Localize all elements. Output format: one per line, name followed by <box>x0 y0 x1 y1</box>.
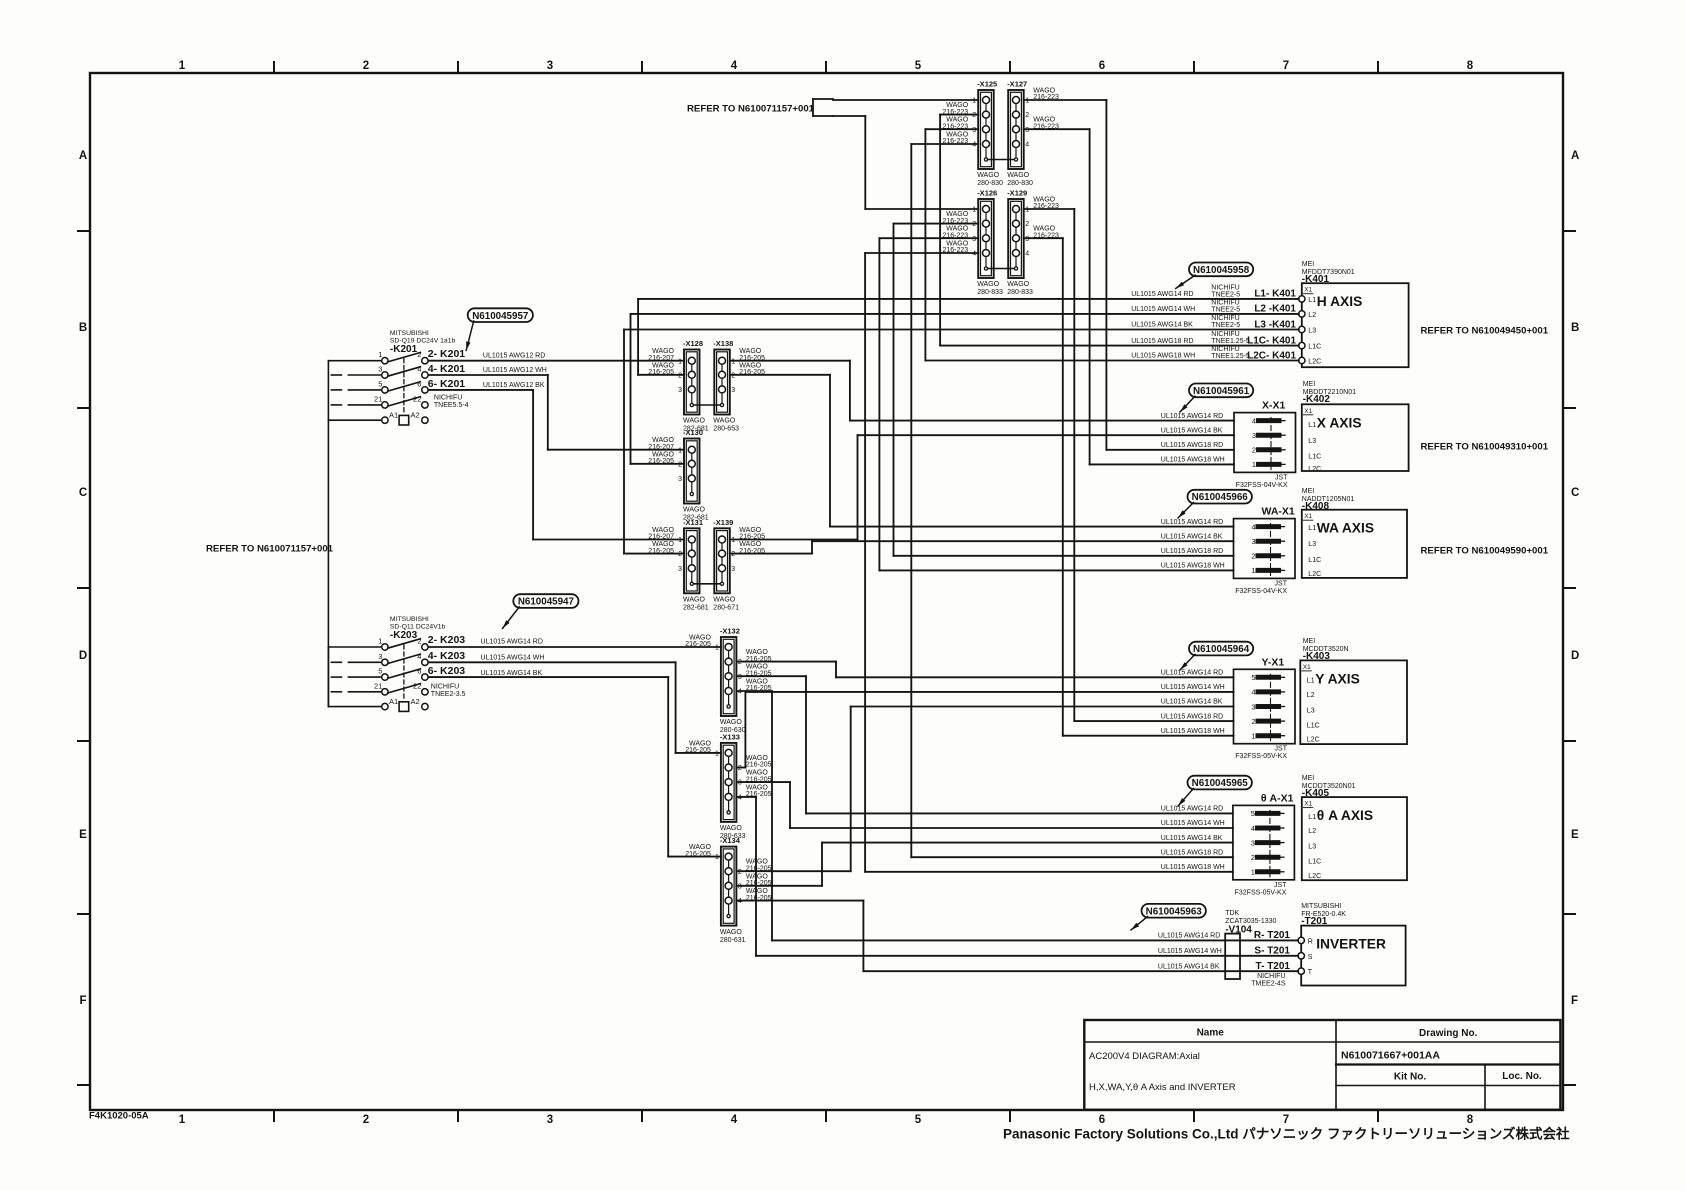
svg-text:3: 3 <box>678 566 682 573</box>
svg-text:1: 1 <box>1251 732 1255 741</box>
svg-text:UL1015 AWG14 BK: UL1015 AWG14 BK <box>1161 427 1223 434</box>
svg-text:1: 1 <box>972 207 976 214</box>
svg-text:UL1015 AWG14 RD: UL1015 AWG14 RD <box>481 638 543 645</box>
svg-text:TNEE2-3.5: TNEE2-3.5 <box>431 691 466 698</box>
svg-text:MITSUBISHI: MITSUBISHI <box>1301 903 1341 910</box>
svg-text:L2C: L2C <box>1308 571 1321 578</box>
svg-text:UL1015 AWG14 BK: UL1015 AWG14 BK <box>1161 835 1223 842</box>
svg-text:Panasonic Factory Solutions Co: Panasonic Factory Solutions Co.,Ltd パナソニ… <box>1003 1126 1570 1142</box>
svg-text:WAGO: WAGO <box>683 418 705 425</box>
svg-text:21: 21 <box>374 681 382 690</box>
svg-text:X AXIS: X AXIS <box>1317 415 1362 430</box>
svg-text:N610045947: N610045947 <box>518 597 575 608</box>
svg-text:216-205: 216-205 <box>685 747 711 754</box>
svg-text:1: 1 <box>731 358 735 365</box>
svg-text:3: 3 <box>1025 236 1029 243</box>
svg-text:-K201: -K201 <box>390 344 418 355</box>
svg-text:MEI: MEI <box>1303 381 1316 388</box>
svg-text:4: 4 <box>417 365 421 374</box>
svg-text:2: 2 <box>738 765 742 772</box>
svg-text:X1: X1 <box>1303 664 1311 671</box>
svg-text:B: B <box>79 322 87 334</box>
svg-text:4: 4 <box>738 795 742 802</box>
svg-text:REFER TO N610049590+001: REFER TO N610049590+001 <box>1421 546 1549 557</box>
svg-text:X1: X1 <box>1304 287 1312 294</box>
svg-text:TNEE2-5: TNEE2-5 <box>1211 322 1240 329</box>
svg-text:Loc. No.: Loc. No. <box>1502 1071 1542 1082</box>
svg-text:-X125: -X125 <box>977 80 997 89</box>
svg-text:L1: L1 <box>1307 678 1315 685</box>
svg-text:MEI: MEI <box>1303 638 1316 645</box>
svg-text:A1: A1 <box>389 697 398 706</box>
svg-text:UL1015 AWG12 WH: UL1015 AWG12 WH <box>483 367 547 374</box>
svg-text:216-205: 216-205 <box>685 641 711 648</box>
svg-text:UL1015 AWG14 WH: UL1015 AWG14 WH <box>1161 684 1225 691</box>
svg-text:UL1015 AWG14 BK: UL1015 AWG14 BK <box>1161 699 1223 706</box>
svg-text:R: R <box>1308 938 1313 945</box>
svg-text:4: 4 <box>1251 824 1255 833</box>
svg-text:4: 4 <box>1252 416 1256 425</box>
svg-text:4: 4 <box>1025 251 1029 258</box>
svg-text:UL1015 AWG14 WH: UL1015 AWG14 WH <box>1131 306 1195 313</box>
svg-text:WA AXIS: WA AXIS <box>1317 521 1374 536</box>
svg-text:4: 4 <box>738 689 742 696</box>
svg-text:MEI: MEI <box>1302 488 1315 495</box>
svg-text:Kit No.: Kit No. <box>1394 1072 1426 1083</box>
svg-text:X1: X1 <box>1304 801 1312 808</box>
svg-text:2: 2 <box>1025 221 1029 228</box>
svg-text:282-681: 282-681 <box>683 605 709 612</box>
svg-text:UL1015 AWG18 WH: UL1015 AWG18 WH <box>1131 353 1195 360</box>
svg-text:REFER TO N610049450+001: REFER TO N610049450+001 <box>1421 326 1549 337</box>
svg-text:2: 2 <box>731 372 735 379</box>
svg-text:T: T <box>1308 969 1313 976</box>
svg-text:UL1015 AWG12 BK: UL1015 AWG12 BK <box>483 382 545 389</box>
svg-text:UL1015 AWG14 RD: UL1015 AWG14 RD <box>1161 413 1223 420</box>
svg-text:X1: X1 <box>1304 408 1312 415</box>
svg-text:2: 2 <box>417 350 421 359</box>
svg-text:3: 3 <box>738 674 742 681</box>
svg-text:MEI: MEI <box>1302 775 1315 782</box>
svg-text:R- T201: R- T201 <box>1254 930 1291 941</box>
svg-text:N610045966: N610045966 <box>1192 492 1249 503</box>
svg-text:6: 6 <box>417 379 421 388</box>
svg-text:A1: A1 <box>389 411 398 420</box>
svg-text:F32FSS-05V-KX: F32FSS-05V-KX <box>1235 889 1287 896</box>
svg-text:WAGO: WAGO <box>977 281 999 288</box>
svg-text:NICHIFU: NICHIFU <box>431 684 459 691</box>
svg-text:INVERTER: INVERTER <box>1316 937 1386 952</box>
svg-text:280-631: 280-631 <box>720 937 746 944</box>
svg-text:UL1015 AWG14 RD: UL1015 AWG14 RD <box>1161 670 1223 677</box>
svg-text:N610045963: N610045963 <box>1146 906 1203 917</box>
svg-text:X-X1: X-X1 <box>1262 400 1286 412</box>
svg-text:4- K201: 4- K201 <box>428 363 466 375</box>
svg-text:N610071667+001AA: N610071667+001AA <box>1341 1050 1440 1062</box>
svg-text:3: 3 <box>378 365 382 374</box>
svg-text:S- T201: S- T201 <box>1254 946 1290 957</box>
svg-text:2: 2 <box>678 372 682 379</box>
svg-text:NICHIFU: NICHIFU <box>1211 331 1239 338</box>
svg-text:6: 6 <box>1099 1114 1105 1126</box>
svg-text:6- K203: 6- K203 <box>428 665 466 677</box>
svg-text:-X132: -X132 <box>720 627 740 636</box>
svg-text:REFER TO N610071157+001: REFER TO N610071157+001 <box>687 104 815 115</box>
svg-text:2: 2 <box>363 60 369 72</box>
svg-text:8: 8 <box>1467 1114 1474 1126</box>
svg-text:UL1015 AWG18 WH: UL1015 AWG18 WH <box>1161 457 1225 464</box>
svg-text:Y AXIS: Y AXIS <box>1315 671 1359 686</box>
svg-text:A2: A2 <box>411 411 420 420</box>
svg-text:F32FSS-04V-KX: F32FSS-04V-KX <box>1235 588 1287 595</box>
svg-text:5: 5 <box>378 379 382 388</box>
svg-text:E: E <box>79 829 87 841</box>
svg-text:NICHIFU: NICHIFU <box>1211 284 1239 291</box>
svg-text:UL1015 AWG14 WH: UL1015 AWG14 WH <box>481 654 545 661</box>
svg-text:L3: L3 <box>1308 844 1316 851</box>
svg-text:5: 5 <box>1251 809 1255 818</box>
svg-text:F: F <box>1571 995 1578 1007</box>
svg-text:1: 1 <box>715 751 719 758</box>
svg-text:L2C: L2C <box>1308 359 1321 366</box>
svg-text:3: 3 <box>738 883 742 890</box>
svg-text:L1C: L1C <box>1308 859 1321 866</box>
svg-text:1: 1 <box>1252 460 1256 469</box>
svg-text:WAGO: WAGO <box>683 597 705 604</box>
svg-text:L2C- K401: L2C- K401 <box>1247 350 1296 361</box>
svg-text:-X139: -X139 <box>713 518 733 527</box>
svg-text:5: 5 <box>1251 673 1255 682</box>
svg-text:NICHIFU: NICHIFU <box>1211 299 1239 306</box>
svg-text:1: 1 <box>678 358 682 365</box>
svg-text:1: 1 <box>715 645 719 652</box>
svg-text:UL1015 AWG18 RD: UL1015 AWG18 RD <box>1161 849 1223 856</box>
svg-text:L2: L2 <box>1308 828 1316 835</box>
svg-text:3: 3 <box>1252 431 1256 440</box>
svg-text:1: 1 <box>1251 566 1255 575</box>
svg-text:θ A-X1: θ A-X1 <box>1261 792 1294 804</box>
svg-text:UL1015 AWG18 RD: UL1015 AWG18 RD <box>1161 548 1223 555</box>
svg-text:UL1015 AWG14 BK: UL1015 AWG14 BK <box>1131 322 1193 329</box>
svg-text:8: 8 <box>1467 60 1474 72</box>
svg-text:θ A AXIS: θ A AXIS <box>1317 808 1373 823</box>
svg-text:2: 2 <box>731 551 735 558</box>
svg-text:N610045958: N610045958 <box>1193 265 1250 276</box>
svg-text:2- K201: 2- K201 <box>428 348 466 360</box>
svg-text:-X130: -X130 <box>683 428 703 437</box>
svg-text:2: 2 <box>1025 112 1029 119</box>
svg-text:3: 3 <box>678 387 682 394</box>
svg-text:1: 1 <box>1251 868 1255 877</box>
svg-text:3: 3 <box>731 387 735 394</box>
svg-text:TDK: TDK <box>1225 910 1239 917</box>
svg-text:UL1015 AWG14 WH: UL1015 AWG14 WH <box>1158 948 1222 955</box>
svg-text:2: 2 <box>1251 717 1255 726</box>
svg-text:6: 6 <box>417 667 421 676</box>
svg-text:-X138: -X138 <box>713 339 733 348</box>
svg-text:L3 -K401: L3 -K401 <box>1254 319 1296 330</box>
svg-text:3: 3 <box>738 780 742 787</box>
svg-text:H AXIS: H AXIS <box>1317 294 1363 309</box>
svg-text:3: 3 <box>547 1114 553 1126</box>
svg-text:280-833: 280-833 <box>1007 289 1033 296</box>
svg-text:UL1015 AWG14 RD: UL1015 AWG14 RD <box>1161 806 1223 813</box>
svg-text:3: 3 <box>1251 702 1255 711</box>
svg-text:WAGO: WAGO <box>1007 281 1029 288</box>
svg-text:WAGO: WAGO <box>713 418 735 425</box>
svg-text:1: 1 <box>378 350 382 359</box>
svg-text:5: 5 <box>915 1114 922 1126</box>
svg-text:WAGO: WAGO <box>720 719 742 726</box>
svg-text:4: 4 <box>1251 522 1255 531</box>
svg-text:-X128: -X128 <box>683 339 703 348</box>
svg-text:X1: X1 <box>1304 513 1312 520</box>
svg-text:4- K203: 4- K203 <box>428 650 466 662</box>
svg-text:WAGO: WAGO <box>683 507 705 514</box>
svg-text:TNEE5.5-4: TNEE5.5-4 <box>434 402 469 409</box>
svg-text:NICHIFU: NICHIFU <box>1211 346 1239 353</box>
svg-text:3: 3 <box>972 127 976 134</box>
svg-text:UL1015 AWG18 WH: UL1015 AWG18 WH <box>1161 864 1225 871</box>
svg-text:N610045957: N610045957 <box>472 311 529 322</box>
svg-text:L2 -K401: L2 -K401 <box>1254 304 1296 315</box>
svg-text:UL1015 AWG14 RD: UL1015 AWG14 RD <box>1131 291 1193 298</box>
svg-text:N610045965: N610045965 <box>1192 778 1249 789</box>
svg-text:UL1015 AWG18 WH: UL1015 AWG18 WH <box>1161 563 1225 570</box>
svg-text:22: 22 <box>413 681 421 690</box>
svg-text:1: 1 <box>179 1114 186 1126</box>
svg-text:4: 4 <box>731 1114 738 1126</box>
svg-text:WAGO: WAGO <box>1007 172 1029 179</box>
svg-text:2: 2 <box>738 869 742 876</box>
svg-text:-X129: -X129 <box>1007 189 1027 198</box>
svg-text:3: 3 <box>678 476 682 483</box>
svg-text:NICHIFU: NICHIFU <box>434 395 462 402</box>
svg-text:D: D <box>1571 650 1579 662</box>
svg-text:2: 2 <box>1252 446 1256 455</box>
svg-text:C: C <box>79 487 87 499</box>
svg-text:L1: L1 <box>1308 422 1316 429</box>
svg-text:1: 1 <box>378 637 382 646</box>
svg-text:MITSUBISHI: MITSUBISHI <box>390 330 429 337</box>
svg-text:L1: L1 <box>1308 525 1316 532</box>
svg-text:2: 2 <box>363 1114 369 1126</box>
svg-text:4: 4 <box>731 60 738 72</box>
svg-text:WAGO: WAGO <box>977 172 999 179</box>
svg-text:3: 3 <box>378 652 382 661</box>
svg-text:TNEE1.25-5: TNEE1.25-5 <box>1211 353 1250 360</box>
svg-text:1: 1 <box>1025 207 1029 214</box>
svg-text:-X131: -X131 <box>683 518 703 527</box>
svg-text:F32FSS-05V-KX: F32FSS-05V-KX <box>1235 753 1287 760</box>
svg-text:L3: L3 <box>1308 328 1316 335</box>
svg-text:L2: L2 <box>1307 692 1315 699</box>
svg-text:-X134: -X134 <box>720 836 741 845</box>
svg-text:4: 4 <box>738 898 742 905</box>
svg-text:2: 2 <box>972 221 976 228</box>
svg-text:JST: JST <box>1275 474 1288 481</box>
svg-text:3: 3 <box>972 236 976 243</box>
svg-text:2: 2 <box>1251 853 1255 862</box>
svg-text:3: 3 <box>1025 127 1029 134</box>
svg-text:S: S <box>1308 954 1313 961</box>
svg-text:216-205: 216-205 <box>746 762 772 769</box>
svg-text:Name: Name <box>1197 1028 1225 1039</box>
svg-text:L1C- K401: L1C- K401 <box>1247 335 1296 346</box>
svg-text:L3: L3 <box>1307 708 1315 715</box>
svg-text:1: 1 <box>715 854 719 861</box>
svg-text:2: 2 <box>1251 552 1255 561</box>
svg-text:280-653: 280-653 <box>713 426 739 433</box>
svg-text:1: 1 <box>179 60 186 72</box>
svg-text:A2: A2 <box>411 697 420 706</box>
svg-text:2: 2 <box>678 461 682 468</box>
svg-text:UL1015 AWG14 WH: UL1015 AWG14 WH <box>1161 820 1225 827</box>
svg-text:UL1015 AWG14 RD: UL1015 AWG14 RD <box>1161 519 1223 526</box>
svg-text:MEI: MEI <box>1302 261 1315 268</box>
svg-text:2: 2 <box>972 112 976 119</box>
svg-text:T- T201: T- T201 <box>1256 961 1291 972</box>
svg-text:1: 1 <box>678 537 682 544</box>
svg-text:6: 6 <box>1099 60 1105 72</box>
svg-text:L1- K401: L1- K401 <box>1254 289 1296 300</box>
svg-text:AC200V4 DIAGRAM:Axial: AC200V4 DIAGRAM:Axial <box>1089 1051 1200 1062</box>
svg-text:C: C <box>1571 487 1579 499</box>
svg-text:L1C: L1C <box>1307 723 1320 730</box>
svg-text:L3: L3 <box>1308 541 1316 548</box>
svg-text:22: 22 <box>413 394 421 403</box>
svg-text:280-830: 280-830 <box>977 180 1003 187</box>
svg-text:UL1015 AWG18 WH: UL1015 AWG18 WH <box>1161 728 1225 735</box>
svg-text:TNEE2-5: TNEE2-5 <box>1211 291 1240 298</box>
svg-text:-X126: -X126 <box>977 189 997 198</box>
svg-text:4: 4 <box>972 251 976 258</box>
svg-text:3: 3 <box>1251 838 1255 847</box>
svg-text:REFER TO N610071157+001: REFER TO N610071157+001 <box>206 544 334 555</box>
svg-text:JST: JST <box>1275 746 1288 753</box>
svg-text:UL1015 AWG14 BK: UL1015 AWG14 BK <box>1158 963 1220 970</box>
svg-text:5: 5 <box>915 60 922 72</box>
svg-text:A: A <box>1571 150 1579 162</box>
svg-text:L1C: L1C <box>1308 557 1321 564</box>
svg-text:4: 4 <box>1025 142 1029 149</box>
svg-text:2: 2 <box>738 659 742 666</box>
svg-text:Y-X1: Y-X1 <box>1262 656 1285 668</box>
svg-text:L1C: L1C <box>1308 454 1321 461</box>
svg-text:TMEE2-4S: TMEE2-4S <box>1251 980 1286 987</box>
svg-text:D: D <box>79 650 87 662</box>
svg-text:UL1015 AWG18 RD: UL1015 AWG18 RD <box>1161 713 1223 720</box>
svg-text:L3: L3 <box>1308 438 1316 445</box>
svg-text:WA-X1: WA-X1 <box>1262 506 1295 518</box>
svg-text:4: 4 <box>1251 688 1255 697</box>
svg-text:F: F <box>79 995 86 1007</box>
svg-text:-X127: -X127 <box>1007 80 1027 89</box>
svg-text:WAGO: WAGO <box>720 825 742 832</box>
svg-text:-X133: -X133 <box>720 732 740 741</box>
svg-text:UL1015 AWG18 RD: UL1015 AWG18 RD <box>1131 338 1193 345</box>
svg-text:21: 21 <box>374 394 382 403</box>
svg-text:B: B <box>1571 322 1579 334</box>
svg-text:7: 7 <box>1283 1114 1289 1126</box>
svg-text:L2C: L2C <box>1307 737 1320 744</box>
svg-text:1: 1 <box>731 537 735 544</box>
svg-text:UL1015 AWG18 RD: UL1015 AWG18 RD <box>1161 442 1223 449</box>
svg-text:2- K203: 2- K203 <box>428 634 466 646</box>
svg-text:L2: L2 <box>1308 312 1316 319</box>
svg-text:7: 7 <box>1283 60 1289 72</box>
svg-text:UL1015 AWG14 BK: UL1015 AWG14 BK <box>481 670 543 677</box>
svg-text:3: 3 <box>731 566 735 573</box>
svg-text:NICHIFU: NICHIFU <box>1257 973 1285 980</box>
svg-text:WAGO: WAGO <box>720 929 742 936</box>
svg-text:Drawing No.: Drawing No. <box>1419 1028 1478 1039</box>
svg-text:280-833: 280-833 <box>977 289 1003 296</box>
svg-text:1: 1 <box>972 98 976 105</box>
svg-text:F32FSS-04V-KX: F32FSS-04V-KX <box>1236 482 1288 489</box>
svg-text:2: 2 <box>417 637 421 646</box>
svg-text:4: 4 <box>972 142 976 149</box>
svg-text:L2C: L2C <box>1308 466 1321 473</box>
svg-text:A: A <box>79 150 87 162</box>
svg-text:1: 1 <box>678 447 682 454</box>
svg-text:4: 4 <box>417 652 421 661</box>
svg-text:E: E <box>1571 829 1579 841</box>
svg-text:280-830: 280-830 <box>1007 180 1033 187</box>
svg-text:N610045964: N610045964 <box>1193 644 1250 655</box>
svg-text:JST: JST <box>1275 580 1288 587</box>
svg-text:L1: L1 <box>1308 297 1316 304</box>
svg-text:TNEE2-5: TNEE2-5 <box>1211 306 1240 313</box>
svg-text:6- K201: 6- K201 <box>428 378 466 390</box>
svg-text:L1: L1 <box>1308 814 1316 821</box>
svg-text:MITSUBISHI: MITSUBISHI <box>390 616 429 623</box>
svg-text:NICHIFU: NICHIFU <box>1211 315 1239 322</box>
svg-text:N610045961: N610045961 <box>1193 386 1250 397</box>
svg-text:3: 3 <box>1251 537 1255 546</box>
svg-text:UL1015 AWG12 RD: UL1015 AWG12 RD <box>483 353 545 360</box>
svg-text:F4K1020-05A: F4K1020-05A <box>89 1111 149 1122</box>
svg-text:L1C: L1C <box>1308 344 1321 351</box>
svg-text:H,X,WA,Y,θ A Axis and INVERTER: H,X,WA,Y,θ A Axis and INVERTER <box>1089 1082 1236 1093</box>
svg-text:REFER TO N610049310+001: REFER TO N610049310+001 <box>1421 442 1549 453</box>
svg-text:TNEE1.25-5: TNEE1.25-5 <box>1211 338 1250 345</box>
svg-text:5: 5 <box>378 667 382 676</box>
svg-text:280-671: 280-671 <box>713 605 739 612</box>
svg-text:3: 3 <box>547 60 553 72</box>
svg-text:WAGO: WAGO <box>713 597 735 604</box>
svg-text:2: 2 <box>678 551 682 558</box>
svg-text:JST: JST <box>1274 882 1287 889</box>
svg-text:UL1015 AWG14 BK: UL1015 AWG14 BK <box>1161 533 1223 540</box>
svg-text:1: 1 <box>1025 98 1029 105</box>
svg-text:216-205: 216-205 <box>685 851 711 858</box>
svg-text:UL1015 AWG14 RD: UL1015 AWG14 RD <box>1158 933 1220 940</box>
svg-text:-K203: -K203 <box>390 630 418 641</box>
svg-text:L2C: L2C <box>1308 873 1321 880</box>
